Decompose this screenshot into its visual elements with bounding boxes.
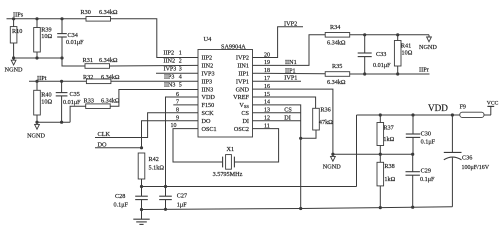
svg-text:C29: C29 [421, 168, 431, 175]
wire VDD riser [356, 115, 358, 187]
U4 right pin numbers 20-11 [264, 52, 270, 129]
capacitor C36 100uF/16V electrolytic [444, 115, 490, 207]
svg-text:VCC: VCC [487, 101, 499, 107]
svg-text:NGND: NGND [323, 164, 341, 171]
wire U4 pin 15 VREF to R36 [253, 97, 316, 108]
svg-text:IIPr: IIPr [419, 66, 430, 73]
ground NGND mid [323, 154, 341, 170]
fuse F9 [460, 105, 484, 118]
svg-text:IIP2: IIP2 [202, 55, 213, 62]
U4 left pin names [202, 55, 217, 133]
svg-text:C27: C27 [177, 193, 187, 200]
resistor R32 6.34k [83, 74, 120, 84]
wire U4 pin 10 OSC1 to crystal [173, 129, 223, 162]
svg-text:6.34kΩ: 6.34kΩ [99, 57, 118, 64]
wire Vss bottom rail [142, 207, 453, 210]
svg-text:VREF: VREF [233, 94, 249, 101]
capacitor C33 0.01uF [358, 35, 391, 74]
svg-text:IVP1: IVP1 [236, 78, 249, 85]
wire R35 output rail to IIPr [350, 73, 430, 75]
wire R34 output rail [350, 34, 429, 36]
svg-text:1kΩ: 1kΩ [384, 176, 395, 183]
svg-text:IIN3: IIN3 [202, 86, 214, 93]
svg-text:4: 4 [179, 74, 182, 80]
svg-text:OSC2: OSC2 [234, 126, 249, 133]
svg-text:1μF: 1μF [177, 202, 187, 209]
svg-text:5: 5 [179, 82, 182, 88]
ground NGND under IIPt [27, 122, 45, 139]
wire IVP3 to U4 pin 3 [156, 72, 198, 74]
svg-text:IVP3: IVP3 [164, 67, 177, 73]
svg-text:NGND: NGND [27, 133, 45, 140]
capacitor C34 0.01uF [57, 19, 84, 58]
junction dots R35 rail [363, 72, 399, 75]
resistor R42 5.1k pull-up [138, 153, 164, 187]
svg-text:C35: C35 [70, 91, 80, 98]
svg-text:10Ω: 10Ω [41, 33, 52, 40]
svg-text:CS: CS [241, 110, 249, 117]
junction dots VDD lower rail [140, 185, 167, 188]
svg-text:6.34kΩ: 6.34kΩ [99, 9, 118, 16]
wire NGND mid rail [333, 153, 413, 155]
svg-text:6.34kΩ: 6.34kΩ [327, 79, 346, 86]
svg-text:6.34kΩ: 6.34kΩ [327, 40, 346, 47]
ground NGND under IIPs [5, 58, 23, 74]
svg-text:R33: R33 [84, 98, 94, 105]
svg-text:X1: X1 [227, 146, 235, 153]
svg-text:NGND: NGND [419, 44, 437, 51]
svg-text:IVP1: IVP1 [284, 75, 297, 82]
svg-text:6.34kΩ: 6.34kΩ [101, 98, 120, 105]
junction dot NGND node [331, 153, 334, 156]
wire IIPt bottom rail [37, 121, 70, 123]
svg-text:47kΩ: 47kΩ [319, 119, 333, 126]
svg-text:0.01μF: 0.01μF [373, 62, 391, 69]
svg-text:DO: DO [202, 118, 211, 125]
svg-text:5.1kΩ: 5.1kΩ [149, 164, 165, 171]
svg-text:R41: R41 [401, 43, 411, 50]
svg-text:CS: CS [284, 106, 292, 113]
wire U4 pin 12 DI [253, 120, 301, 122]
resistor R37 1k [377, 115, 395, 154]
svg-text:F150: F150 [202, 102, 215, 109]
svg-text:GND: GND [236, 86, 250, 93]
svg-text:U4: U4 [204, 36, 213, 43]
power VCC [484, 101, 499, 115]
svg-text:C28: C28 [115, 193, 125, 200]
ground NGND right of R34 [419, 35, 437, 51]
capacitor C28 0.1uF [114, 187, 148, 210]
svg-text:R38: R38 [384, 163, 394, 170]
svg-text:R30: R30 [81, 9, 91, 16]
svg-text:0.1μF: 0.1μF [420, 176, 435, 183]
U4 left pin numbers 1-10 [171, 51, 182, 130]
wire VDD rail (lower) [142, 186, 357, 188]
svg-text:NGND: NGND [5, 67, 23, 74]
svg-text:CLK: CLK [98, 131, 111, 138]
svg-text:IIN2: IIN2 [163, 58, 175, 65]
svg-text:R34: R34 [330, 24, 340, 31]
junction dots IIPt rail [35, 80, 63, 83]
capacitor C30 0.1uF [406, 115, 436, 154]
wire U4 pin 18 IIP1 to R35 [253, 72, 326, 74]
svg-text:IIN2: IIN2 [202, 63, 214, 70]
ground earth symbol [133, 210, 149, 225]
svg-text:OSC1: OSC1 [202, 126, 217, 133]
svg-text:IIN1: IIN1 [285, 59, 297, 66]
svg-text:IIP3: IIP3 [164, 74, 174, 80]
junction dots IIPt bottom rail [35, 121, 63, 124]
svg-text:DI: DI [284, 115, 291, 122]
wire U4 pin 6 VDD down to VDD rail [166, 97, 199, 187]
svg-text:IIN1: IIN1 [237, 63, 249, 70]
svg-text:DI: DI [242, 118, 249, 125]
junction dots IIPs top rail [12, 17, 64, 20]
junction dots Vss bottom rail [140, 206, 414, 212]
svg-text:0.1μF: 0.1μF [114, 202, 129, 209]
svg-text:0.1μF: 0.1μF [421, 138, 436, 145]
svg-text:IIP2: IIP2 [163, 50, 174, 57]
svg-text:C36: C36 [462, 154, 472, 161]
svg-text:SCK: SCK [202, 110, 215, 117]
svg-text:F9: F9 [460, 105, 466, 111]
svg-text:R10: R10 [12, 28, 22, 35]
svg-text:R42: R42 [149, 156, 159, 163]
capacitor C35 0.01uF [56, 81, 81, 122]
junction dots R34 rail [363, 33, 399, 36]
wire CLK to U4 pin 8 SCK [95, 113, 198, 138]
wire IIPt bottom rail up to R33 [70, 106, 86, 122]
wire R33 output to U4 pin 5 [110, 90, 198, 107]
svg-text:IVP2: IVP2 [236, 55, 249, 62]
svg-text:3: 3 [179, 67, 182, 73]
svg-text:2: 2 [179, 59, 182, 65]
IC U4 SA9904A [198, 36, 253, 137]
svg-text:0.01μF: 0.01μF [63, 99, 81, 106]
resistor R41 10 ohm [394, 35, 412, 74]
resistor R39 10 ohm [34, 19, 53, 58]
wire R31 output to U4 pin 2 [110, 64, 199, 67]
svg-text:IIPs: IIPs [13, 11, 24, 18]
svg-text:0.01μF: 0.01μF [66, 39, 84, 46]
svg-text:1: 1 [179, 51, 182, 57]
svg-text:IIN3: IIN3 [164, 82, 175, 88]
wire VDD top rail [357, 114, 460, 116]
svg-text:IIP3: IIP3 [202, 78, 213, 85]
crystal X1 3.5795MHz [213, 146, 243, 178]
svg-text:IVP2: IVP2 [284, 20, 297, 27]
svg-text:R37: R37 [383, 124, 393, 131]
wire R30 output to U4 pin 1 [111, 19, 199, 58]
wire U4 pin 17 IVP1 stub [253, 80, 302, 82]
junction dot DO/R42 [140, 146, 143, 149]
resistor R36 47k [313, 107, 333, 131]
wire U4 pin 16 GND to NGND rail [253, 89, 333, 154]
svg-text:R31: R31 [83, 57, 93, 64]
wire DO to U4 pin 9 [95, 121, 198, 148]
wire U4 pin 14 Vss down to Vss rail [253, 105, 301, 208]
svg-text:IVP3: IVP3 [202, 71, 215, 78]
resistor R38 1k [377, 154, 396, 207]
wire U4 pin 13 CS [253, 112, 301, 114]
resistor R33 6.34k [84, 98, 120, 109]
wire R36 bottom to Vss drop [301, 130, 316, 138]
svg-text:3.5795MHz: 3.5795MHz [213, 171, 243, 178]
svg-text:SA9904A: SA9904A [221, 43, 246, 50]
wire R32 output to U4 pin 4 [111, 80, 198, 82]
wire U4 pin 11 OSC2 to crystal [234, 129, 278, 162]
resistor R31 6.34k [83, 57, 118, 68]
capacitor C29 0.1uF [406, 154, 436, 207]
wire U4 pin 7 F150 stub [173, 104, 198, 106]
wire U4 pin 20 to IVP2 label [253, 27, 304, 58]
resistor R34 6.34k [325, 24, 350, 47]
svg-text:6.34kΩ: 6.34kΩ [101, 74, 120, 81]
svg-text:C33: C33 [376, 51, 386, 58]
svg-text:R35: R35 [332, 63, 342, 70]
wire IIPt rail [29, 80, 86, 82]
junction dot R36/Vss [299, 137, 302, 140]
svg-text:C30: C30 [421, 130, 431, 137]
svg-text:DO: DO [98, 141, 108, 148]
resistor R30 6.34k [81, 9, 118, 21]
svg-text:10Ω: 10Ω [41, 98, 52, 105]
svg-text:VSS: VSS [239, 102, 249, 109]
svg-text:R36: R36 [320, 107, 330, 114]
resistor R10 [10, 19, 22, 58]
junction dots IIPs bottom rail [12, 56, 64, 59]
svg-text:IIP1: IIP1 [238, 71, 249, 78]
U4 right pin names [233, 55, 249, 133]
wire IIPs node down to R31 [62, 58, 85, 66]
svg-text:VDD: VDD [428, 103, 448, 113]
svg-text:10Ω: 10Ω [402, 50, 413, 57]
resistor R40 10 ohm [34, 81, 53, 122]
capacitor C27 1uF [159, 187, 187, 210]
svg-text:VDD: VDD [202, 94, 216, 101]
svg-text:100μF/16V: 100μF/16V [462, 165, 490, 171]
wire U4 pin 19 IIN1 to R34 [253, 35, 326, 66]
junction dots NGND mid rail [379, 153, 415, 156]
svg-text:1kΩ: 1kΩ [383, 136, 394, 143]
wire IIPs bottom rail [14, 57, 62, 59]
svg-text:R32: R32 [83, 74, 93, 81]
wire IIPs top rail [7, 18, 87, 20]
resistor R35 6.34k [325, 63, 350, 86]
junction dots VDD top rail [379, 113, 454, 116]
